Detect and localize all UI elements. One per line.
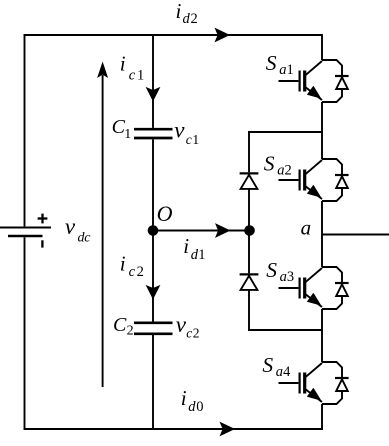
label i_d0: [181, 386, 204, 415]
svg-text:C: C: [113, 314, 127, 336]
svg-text:i: i: [176, 0, 182, 23]
svg-text:c: c: [186, 326, 192, 341]
svg-text:1: 1: [124, 127, 131, 142]
svg-text:S: S: [264, 151, 275, 175]
label S_a4: [262, 353, 291, 380]
svg-text:c: c: [186, 132, 192, 147]
arrowhead i_d1 (right): [215, 223, 231, 238]
wire rail S_a3-S_a4: [321, 309, 323, 362]
label i_d1: [183, 234, 205, 263]
wire i_d1: [153, 230, 250, 232]
arrowhead i_d2 (right): [215, 28, 231, 43]
svg-text:2: 2: [193, 326, 200, 341]
arrowhead i_d0 (right): [220, 422, 236, 437]
transistor S_a1: [279, 61, 323, 100]
svg-text:3: 3: [287, 269, 294, 285]
svg-text:2: 2: [191, 11, 198, 27]
label a (output): [301, 216, 312, 240]
transistor S_a3: [279, 268, 323, 307]
arrowhead v_dc (up): [97, 62, 108, 79]
label v_dc: [65, 214, 91, 246]
label i_c1: [120, 52, 144, 84]
wire clamp D1-node: [248, 189, 250, 231]
arrowhead i_c1 (down): [146, 87, 161, 102]
svg-text:i: i: [183, 234, 189, 258]
wire rail S_a4-bottom: [321, 404, 323, 429]
svg-text:S: S: [266, 258, 277, 282]
wire clamp D1 top lead: [248, 131, 250, 172]
wire bottom bus i_d0: [24, 428, 323, 430]
svg-text:1: 1: [192, 132, 199, 147]
svg-text:a: a: [277, 163, 284, 179]
diode D_a2 (antiparallel): [322, 159, 349, 201]
diode D_a1 (antiparallel): [322, 60, 349, 102]
svg-text:a: a: [280, 269, 287, 285]
svg-text:i: i: [181, 386, 187, 410]
svg-text:c: c: [84, 230, 91, 245]
svg-text:a: a: [279, 62, 286, 78]
svg-text:v: v: [174, 117, 185, 142]
diode D2 (clamp): [240, 274, 259, 290]
arrowhead i_c2 (down): [146, 285, 161, 300]
svg-text:d: d: [188, 399, 196, 415]
svg-text:i: i: [120, 52, 126, 76]
transistor S_a2: [279, 160, 323, 199]
svg-text:4: 4: [283, 364, 291, 380]
label i_c2: [120, 252, 144, 280]
wire clamp upper horizontal: [248, 131, 322, 133]
svg-text:0: 0: [196, 399, 203, 415]
svg-text:v: v: [65, 214, 76, 239]
wire top bus i_d2: [24, 34, 322, 36]
capacitor C1 plates: [134, 129, 173, 138]
battery source short plate (-): [8, 235, 43, 238]
wire clamp D2-corner: [248, 290, 250, 331]
wire middle O-C2 (i_c2): [152, 231, 154, 322]
label C1: [112, 116, 132, 142]
wire middle C2-bottom: [152, 335, 154, 430]
svg-text:1: 1: [287, 62, 294, 78]
svg-text:2: 2: [137, 264, 144, 280]
svg-text:d: d: [183, 11, 191, 27]
label + (battery positive): [38, 214, 48, 224]
wire left (top half): [24, 34, 26, 226]
wire middle C1-O: [152, 139, 154, 230]
label C2: [113, 314, 134, 339]
svg-text:1: 1: [137, 68, 144, 84]
svg-text:c: c: [129, 264, 136, 280]
svg-text:O: O: [157, 201, 173, 226]
label node O: [157, 201, 173, 226]
wire output a: [322, 234, 389, 236]
wire left (bottom half): [24, 237, 26, 430]
svg-text:a: a: [276, 364, 283, 380]
svg-text:S: S: [262, 353, 273, 377]
capacitor C2 plates: [134, 323, 173, 334]
label - (battery negative): [41, 240, 43, 247]
label i_d2: [176, 0, 198, 27]
transistor S_a4: [279, 363, 323, 402]
svg-text:v: v: [176, 312, 187, 337]
svg-text:2: 2: [285, 163, 292, 179]
diode D_a3 (antiparallel): [322, 267, 349, 309]
diode D1 (clamp): [240, 173, 259, 189]
label S_a3: [266, 258, 294, 285]
wire rail S_a1-S_a2: [321, 102, 323, 159]
wire clamp lower horizontal: [248, 329, 322, 331]
svg-text:S: S: [266, 51, 277, 75]
battery source long plate (+): [0, 227, 51, 229]
node junction dot (clamp midpoint): [244, 225, 255, 236]
svg-text:1: 1: [198, 247, 205, 263]
diode D_a4 (antiparallel): [322, 362, 349, 404]
svg-text:i: i: [120, 252, 126, 276]
label S_a1: [266, 51, 294, 78]
label S_a2: [264, 151, 292, 178]
wire rail top: [321, 34, 323, 60]
node O junction dot: [148, 225, 159, 236]
wire middle top (i_c1): [152, 34, 154, 128]
label v_c1: [174, 117, 199, 146]
label v_c2: [176, 312, 200, 340]
svg-text:2: 2: [127, 324, 134, 339]
svg-text:a: a: [301, 216, 312, 240]
wire rail S_a2-S_a3: [321, 201, 323, 267]
wire v_dc arrow shaft: [102, 75, 104, 387]
svg-text:c: c: [129, 67, 136, 83]
wire clamp node-D2: [248, 231, 250, 274]
